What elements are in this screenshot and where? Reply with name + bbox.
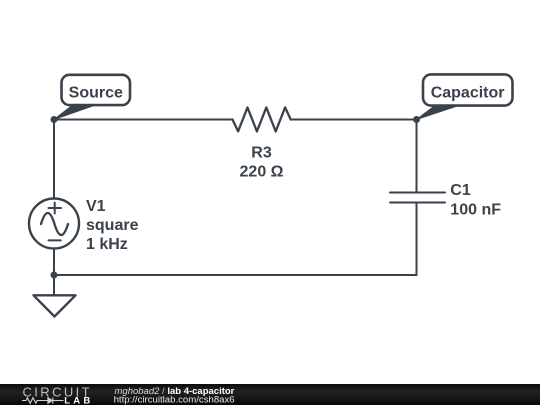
wire right rail upper (node B to capacitor C1 top plate)	[416, 120, 418, 193]
junction node C (bottom-left)	[51, 272, 58, 279]
svg-text:V1: V1	[86, 198, 106, 215]
svg-text:square: square	[86, 217, 139, 234]
wire top-right (resistor R3 right lead to node B)	[291, 119, 417, 121]
wire top-left (node A to resistor R3 left lead)	[54, 119, 233, 121]
wire bottom (node C to capacitor C1 bottom)	[54, 274, 417, 276]
svg-text:1 kHz: 1 kHz	[86, 236, 128, 253]
svg-text:R3: R3	[251, 144, 272, 161]
junction node A (top-left)	[51, 116, 58, 123]
ground	[34, 295, 76, 316]
wire left rail lower (V1 bottom to ground)	[53, 249, 55, 296]
callout Source	[54, 75, 130, 120]
wire right rail lower (capacitor C1 bottom plate to bottom wire)	[416, 203, 418, 276]
wire left rail upper (node A to V1 top)	[53, 120, 55, 199]
capacitor C1	[390, 193, 445, 203]
svg-text:Capacitor: Capacitor	[431, 85, 505, 102]
svg-text:100 nF: 100 nF	[450, 201, 501, 218]
svg-text:LAB: LAB	[64, 395, 93, 405]
voltage source V1	[29, 199, 79, 249]
svg-text:220 Ω: 220 Ω	[240, 164, 284, 181]
svg-text:C1: C1	[450, 182, 471, 199]
svg-text:Source: Source	[69, 84, 123, 101]
footer bar	[0, 384, 540, 405]
junction node B (top-right)	[413, 116, 420, 123]
CircuitLab logo	[22, 384, 93, 405]
resistor R3	[233, 107, 291, 131]
callout Capacitor	[417, 74, 513, 119]
svg-text:http://circuitlab.com/csh8ax6: http://circuitlab.com/csh8ax6	[114, 395, 235, 405]
